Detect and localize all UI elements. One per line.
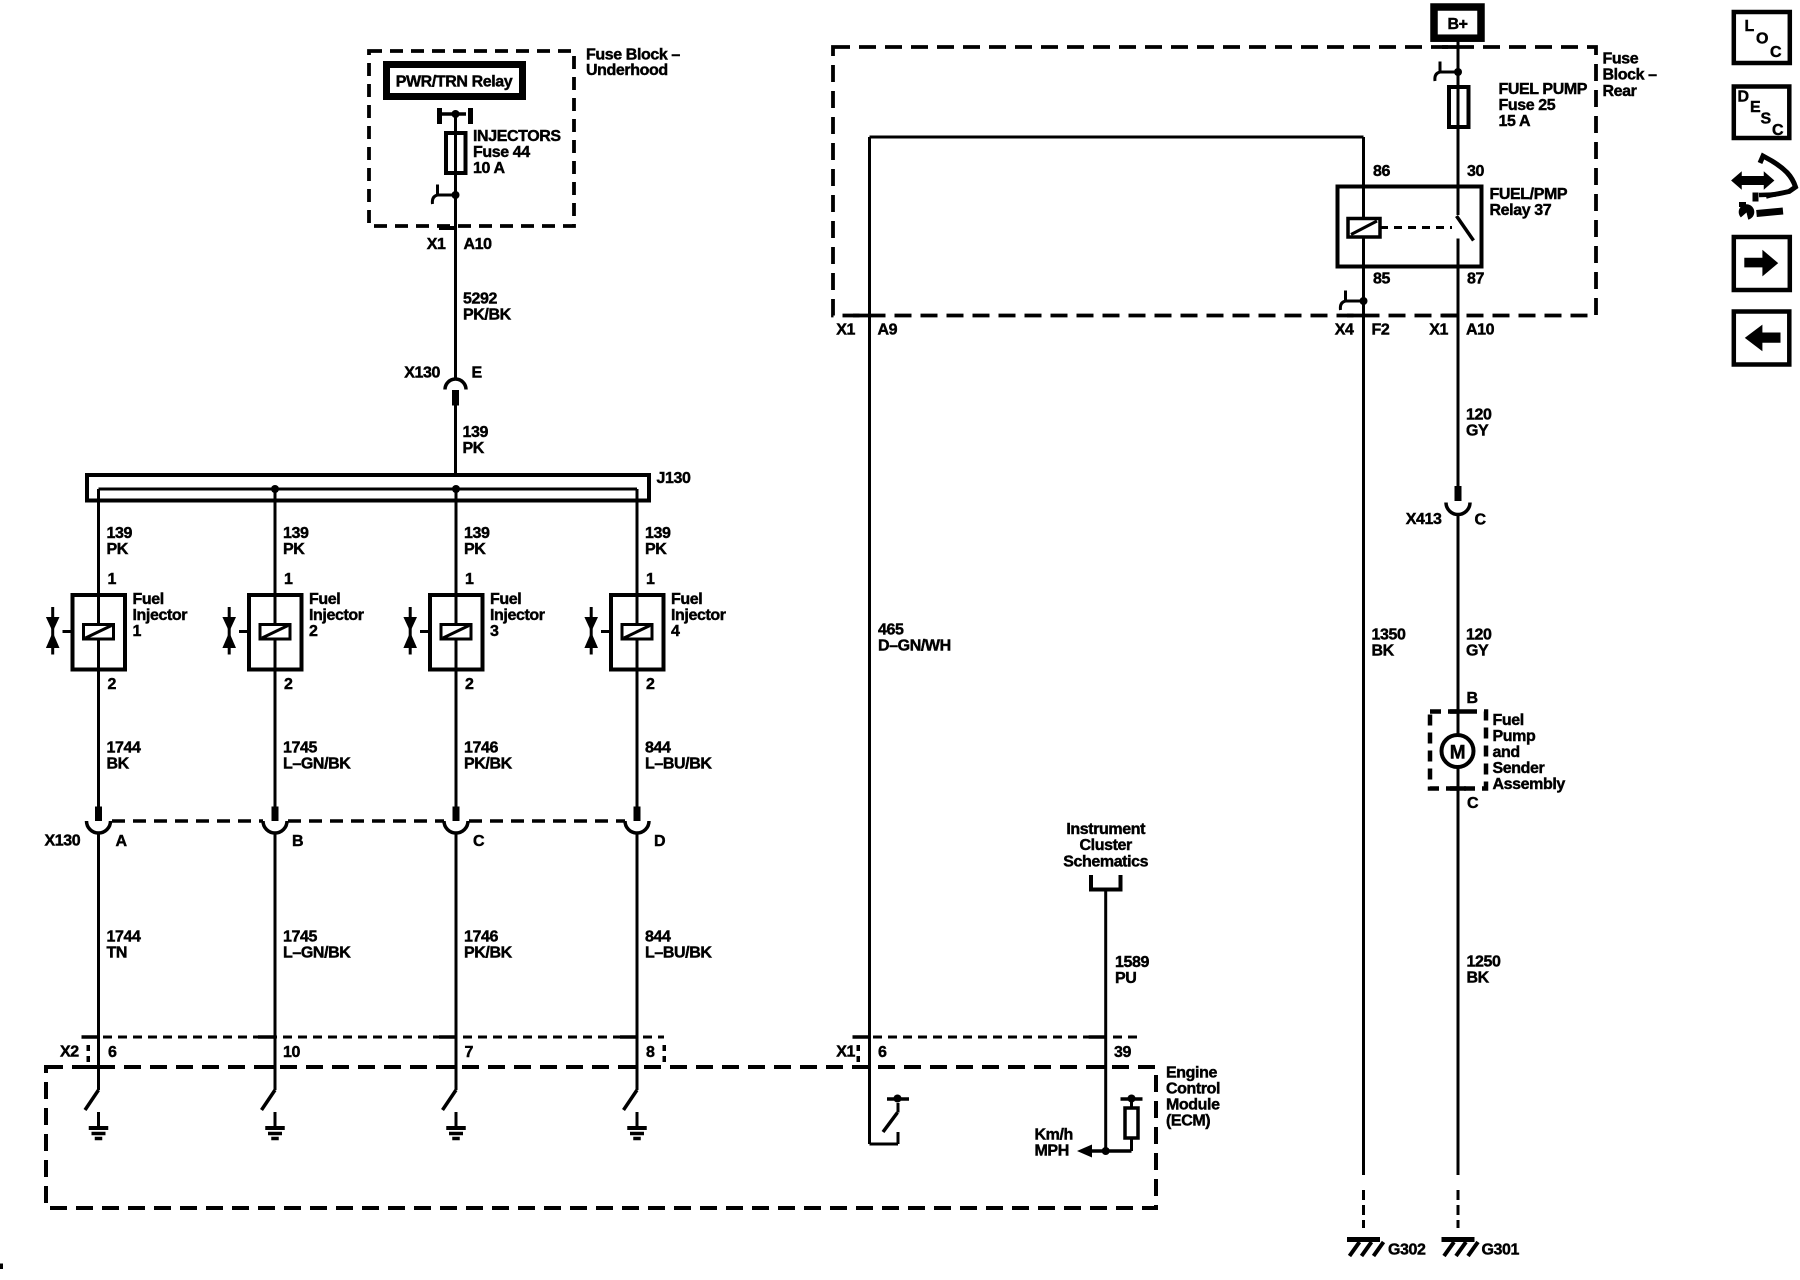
wire injector 3 to connector X130	[455, 641, 458, 807]
svg-text:Injector: Injector	[133, 607, 188, 624]
svg-text:PWR/TRN Relay: PWR/TRN Relay	[396, 74, 513, 91]
label FUEL/PMP Relay 37	[1490, 186, 1568, 219]
svg-text:2: 2	[309, 623, 318, 640]
svg-text:1: 1	[284, 571, 293, 588]
wire 1589 PU	[1106, 890, 1150, 1152]
fuse F25 (FUEL PUMP Fuse 25 15A)	[1449, 81, 1588, 130]
dashed wire end at G302	[1362, 1190, 1365, 1228]
wire label 1746 PK/BK	[464, 929, 513, 962]
label Instrument Cluster Schematics	[1063, 821, 1148, 871]
ECM driver switch for injector 4	[624, 1090, 638, 1110]
svg-text:1: 1	[108, 571, 117, 588]
svg-text:PK/BK: PK/BK	[463, 307, 512, 324]
svg-text:A10: A10	[1466, 322, 1495, 339]
svg-text:7: 7	[465, 1044, 474, 1061]
svg-text:FUEL PUMP: FUEL PUMP	[1499, 81, 1588, 98]
connector X130 pin D	[625, 807, 665, 851]
pin C label	[1467, 795, 1479, 812]
svg-text:Instrument: Instrument	[1066, 821, 1146, 838]
svg-text:844: 844	[645, 929, 671, 946]
svg-text:J130: J130	[657, 470, 691, 487]
ECM driver switch for injector 2	[262, 1090, 276, 1110]
svg-text:5292: 5292	[463, 291, 497, 308]
ground G301	[1442, 1240, 1520, 1259]
wire pin 86 to X1 A9 (horizontal)	[870, 137, 1364, 316]
wire injector 1 to connector X130	[97, 641, 100, 807]
fuel injector 4	[584, 591, 725, 670]
ground symbol inside ECM 4	[627, 1112, 647, 1139]
svg-text:and: and	[1493, 744, 1520, 761]
fuel injector 2	[222, 591, 363, 670]
svg-text:86: 86	[1373, 163, 1390, 180]
relay internal dashed link	[1380, 226, 1452, 229]
labels X1 / A10 (rear)	[1429, 322, 1494, 339]
wire: relay contact through fuse 44 to X130 E	[454, 114, 457, 378]
wire 139 PK drop to injector 4	[637, 489, 671, 623]
ECM low-side switch at pin 6 (X1)	[870, 1095, 910, 1145]
svg-text:Rear: Rear	[1603, 83, 1637, 100]
wire 139 PK feed to J130	[454, 406, 457, 478]
svg-text:X1: X1	[836, 1044, 855, 1061]
svg-text:1350: 1350	[1372, 627, 1406, 644]
svg-text:INJECTORS: INJECTORS	[473, 128, 561, 145]
svg-text:C: C	[1467, 795, 1479, 812]
svg-text:X4: X4	[1335, 322, 1354, 339]
svg-text:B+: B+	[1447, 16, 1467, 33]
pin 1 label injector 2	[284, 571, 293, 588]
splice below relay pin 85	[1340, 291, 1367, 311]
fuel pump and sender assembly dashed box	[1430, 712, 1486, 789]
X130 connector dashed row	[112, 819, 625, 823]
svg-text:1744: 1744	[107, 740, 141, 757]
ground symbol inside ECM 3	[446, 1112, 466, 1139]
resistor in ECM	[1121, 1095, 1143, 1139]
relay pin 86 label	[1373, 163, 1390, 180]
wire 139 PK drop to injector 2	[275, 489, 309, 623]
svg-text:GY: GY	[1466, 423, 1489, 440]
svg-text:10 A: 10 A	[473, 160, 505, 177]
wire label 1744 TN	[107, 929, 141, 962]
ECM connector row X2	[60, 1037, 664, 1062]
svg-text:Sender: Sender	[1493, 760, 1545, 777]
svg-text:MPH: MPH	[1035, 1143, 1069, 1160]
svg-text:139: 139	[283, 525, 309, 542]
relay FUEL/PMP Relay 37 box	[1338, 187, 1482, 267]
wire label 120 GY (lower)	[1466, 627, 1492, 660]
fuel injector 3	[403, 591, 544, 670]
svg-text:Control: Control	[1166, 1081, 1220, 1098]
svg-text:Injector: Injector	[309, 607, 364, 624]
wire B+ to fuse 25	[1457, 37, 1460, 85]
connector X130 pin B	[263, 807, 303, 851]
svg-text:X413: X413	[1406, 511, 1442, 528]
labels X1 / A10 at underhood box exit	[427, 236, 492, 253]
svg-text:Relay 37: Relay 37	[1490, 202, 1552, 219]
wire relay 87 down to X413	[1457, 267, 1460, 487]
svg-text:L–BU/BK: L–BU/BK	[645, 945, 712, 962]
label: Fuse Block - Rear	[1603, 51, 1658, 101]
svg-text:PK/BK: PK/BK	[464, 945, 513, 962]
icon forward arrow box	[1734, 237, 1790, 290]
svg-text:1250: 1250	[1467, 954, 1501, 971]
svg-text:A10: A10	[464, 236, 493, 253]
svg-text:Fuse: Fuse	[1603, 51, 1639, 68]
svg-text:Module: Module	[1166, 1097, 1220, 1114]
svg-text:Underhood: Underhood	[586, 62, 668, 79]
svg-text:C: C	[1770, 44, 1782, 61]
tick marks at ECM rows for injector 3 wire	[439, 1037, 456, 1067]
fuel injector 1	[46, 591, 187, 670]
ECM driver switch for injector 1	[85, 1090, 99, 1110]
wire fuse 25 to relay pin 30	[1457, 127, 1460, 215]
svg-text:1746: 1746	[464, 929, 498, 946]
svg-text:X1: X1	[1429, 322, 1448, 339]
tick marks at ECM rows for 465 wire	[853, 1037, 870, 1067]
labels X4 / F2	[1335, 322, 1390, 339]
svg-text:Schematics: Schematics	[1063, 854, 1148, 871]
svg-text:120: 120	[1466, 407, 1492, 424]
labels X1 / A9	[836, 322, 897, 339]
ECM driver switch for injector 3	[443, 1090, 457, 1110]
ECM pin 8 label	[646, 1044, 666, 1062]
svg-text:2: 2	[108, 676, 117, 693]
svg-text:BK: BK	[1372, 643, 1395, 660]
svg-text:139: 139	[107, 525, 133, 542]
svg-text:2: 2	[284, 676, 293, 693]
svg-text:A9: A9	[878, 322, 898, 339]
pin B label	[1467, 690, 1478, 707]
svg-text:BK: BK	[107, 756, 130, 773]
svg-text:(ECM): (ECM)	[1166, 1113, 1210, 1130]
Km/h MPH arrow	[1035, 1127, 1106, 1160]
pin 1 label injector 1	[108, 571, 117, 588]
svg-text:1589: 1589	[1115, 954, 1149, 971]
X130 harness connector label	[45, 833, 81, 850]
svg-text:D: D	[654, 833, 665, 850]
svg-text:3: 3	[490, 623, 499, 640]
svg-text:C: C	[473, 833, 485, 850]
svg-text:PK: PK	[463, 440, 485, 457]
wire label 1746 PK/BK	[464, 740, 513, 773]
svg-text:GY: GY	[1466, 643, 1489, 660]
wire connector B to ECM pin	[274, 833, 277, 1090]
svg-text:X130: X130	[45, 833, 81, 850]
svg-text:PK/BK: PK/BK	[464, 756, 513, 773]
junction block J130	[87, 470, 691, 501]
svg-text:Fuel: Fuel	[309, 591, 340, 608]
svg-text:PK: PK	[645, 541, 667, 558]
svg-text:844: 844	[645, 740, 671, 757]
svg-text:PK: PK	[107, 541, 129, 558]
svg-text:PK: PK	[464, 541, 486, 558]
icon wiring repair tool	[1733, 156, 1796, 223]
connector X413 pin C	[1406, 486, 1487, 529]
svg-text:X1: X1	[427, 236, 446, 253]
svg-text:Fuel: Fuel	[1493, 712, 1524, 729]
svg-text:1: 1	[646, 571, 655, 588]
splice at B+ feed	[1435, 62, 1462, 82]
wire label 1744 BK	[107, 740, 141, 773]
label Fuel Pump and Sender Assembly	[1493, 712, 1566, 793]
svg-text:1745: 1745	[283, 740, 317, 757]
svg-text:Km/h: Km/h	[1035, 1127, 1073, 1144]
icon LOC box	[1734, 12, 1790, 63]
wire 465 D-GN/WH from X1 A9 to ECM pin 6	[870, 316, 951, 1145]
wire label 1745 L–GN/BK	[283, 929, 351, 962]
svg-text:S: S	[1761, 111, 1772, 128]
svg-text:1744: 1744	[107, 929, 141, 946]
svg-text:Fuse 25: Fuse 25	[1499, 97, 1556, 114]
svg-text:1: 1	[465, 571, 474, 588]
svg-text:Fuel: Fuel	[133, 591, 164, 608]
svg-text:D: D	[1738, 89, 1749, 106]
label Engine Control Module (ECM)	[1166, 1065, 1220, 1130]
svg-text:2: 2	[465, 676, 474, 693]
svg-text:X1: X1	[836, 322, 855, 339]
relay switch contact	[1457, 216, 1474, 267]
pin 2 label injector 3	[465, 676, 474, 693]
PWR/TRN Relay box	[387, 65, 523, 97]
pin 2 label injector 2	[284, 676, 293, 693]
svg-text:1746: 1746	[464, 740, 498, 757]
svg-text:BK: BK	[1467, 970, 1490, 987]
svg-text:E: E	[472, 365, 483, 382]
svg-text:E: E	[1750, 99, 1761, 116]
svg-text:O: O	[1756, 31, 1768, 48]
ECM speed signal node	[1102, 1138, 1132, 1155]
tick marks at ECM rows for injector 2 wire	[258, 1037, 275, 1067]
wire fuel pump to G301	[1457, 767, 1460, 1175]
svg-text:139: 139	[645, 525, 671, 542]
wire connector C to ECM pin	[455, 833, 458, 1090]
splice in underhood fuse block	[432, 185, 459, 205]
svg-text:Fuse Block –: Fuse Block –	[586, 47, 680, 64]
svg-text:Block –: Block –	[1603, 67, 1658, 84]
svg-text:15 A: 15 A	[1499, 113, 1531, 130]
svg-text:Cluster: Cluster	[1080, 837, 1132, 854]
svg-text:X2: X2	[60, 1044, 79, 1061]
svg-text:85: 85	[1373, 271, 1390, 288]
svg-text:Assembly: Assembly	[1493, 776, 1566, 793]
wire 139 PK drop to injector 1	[99, 489, 133, 623]
svg-text:L–BU/BK: L–BU/BK	[645, 756, 712, 773]
svg-text:87: 87	[1467, 271, 1484, 288]
off-page connector bracket	[1089, 875, 1123, 890]
svg-text:6: 6	[878, 1044, 887, 1061]
svg-text:139: 139	[464, 525, 490, 542]
svg-text:TN: TN	[107, 945, 128, 962]
ticks at rear box bottom edge	[853, 314, 1458, 318]
wire X413 to fuel pump	[1457, 515, 1460, 736]
wire 139 PK drop to injector 3	[456, 489, 490, 623]
tick at rear box top edge	[1442, 45, 1458, 49]
svg-text:Fuel: Fuel	[671, 591, 702, 608]
icon back arrow box	[1734, 312, 1790, 365]
fuel pump motor M	[1442, 735, 1474, 767]
svg-text:Injector: Injector	[490, 607, 545, 624]
svg-text:30: 30	[1467, 163, 1484, 180]
ECM pin 7 label	[465, 1044, 474, 1061]
svg-text:B: B	[1467, 690, 1478, 707]
wire relay 85 down to G302	[1362, 316, 1365, 1176]
svg-text:L–GN/BK: L–GN/BK	[283, 945, 351, 962]
svg-text:465: 465	[878, 622, 904, 639]
ECM pin 6 label	[108, 1044, 117, 1061]
battery feed B+	[1434, 7, 1481, 38]
fuse block - rear (dashed box)	[833, 47, 1596, 316]
svg-text:1: 1	[133, 623, 142, 640]
svg-text:D–GN/WH: D–GN/WH	[878, 638, 951, 655]
wire injector 2 to connector X130	[274, 641, 277, 807]
wire label 1745 L–GN/BK	[283, 740, 351, 773]
fuse block - underhood (dashed box)	[369, 51, 574, 226]
wire connector D to ECM pin	[636, 833, 639, 1090]
relay pin 85 label	[1373, 271, 1390, 288]
svg-text:2: 2	[646, 676, 655, 693]
svg-text:8: 8	[646, 1044, 655, 1061]
svg-text:Engine: Engine	[1166, 1065, 1217, 1082]
svg-text:M: M	[1450, 743, 1465, 764]
wire label 120 GY (upper)	[1466, 407, 1492, 440]
ground symbol inside ECM 2	[265, 1112, 285, 1139]
connector X130 pin A	[87, 807, 128, 851]
svg-text:Injector: Injector	[671, 607, 726, 624]
ECM pin 39 label	[1114, 1044, 1131, 1061]
relay pin 30 label	[1467, 163, 1484, 180]
svg-text:C: C	[1772, 122, 1784, 139]
wire label 844 L–BU/BK	[645, 929, 712, 962]
svg-text:139: 139	[463, 424, 489, 441]
wire label 5292 PK/BK	[463, 291, 512, 324]
svg-text:Pump: Pump	[1493, 728, 1536, 745]
svg-text:G302: G302	[1388, 1242, 1426, 1259]
relay coil	[1348, 137, 1380, 316]
svg-text:C: C	[1475, 512, 1487, 529]
label: Fuse Block - Underhood	[586, 47, 680, 80]
pin 2 label injector 1	[108, 676, 117, 693]
svg-text:G301: G301	[1482, 1242, 1520, 1259]
wire label 844 L–BU/BK	[645, 740, 712, 773]
svg-text:F2: F2	[1372, 322, 1390, 339]
svg-text:120: 120	[1466, 627, 1492, 644]
ground symbol inside ECM 1	[89, 1112, 109, 1139]
svg-text:PU: PU	[1115, 970, 1136, 987]
svg-text:4: 4	[671, 623, 680, 640]
svg-text:Fuse 44: Fuse 44	[473, 144, 530, 161]
wire injector 4 to connector X130	[636, 641, 639, 807]
ECM pin 6 (X1) label	[878, 1044, 887, 1061]
dashed wire end at G301	[1457, 1190, 1460, 1228]
svg-text:L: L	[1745, 18, 1755, 35]
page corner mark	[0, 1264, 3, 1270]
ECM dashed box	[46, 1067, 1156, 1208]
connector X130 pin C	[444, 807, 485, 851]
ECM pin 10 label	[283, 1044, 300, 1061]
svg-text:L–GN/BK: L–GN/BK	[283, 756, 351, 773]
pin 1 label injector 3	[465, 571, 474, 588]
svg-text:Fuel: Fuel	[490, 591, 521, 608]
svg-text:10: 10	[283, 1044, 300, 1061]
wire label 1350 BK	[1372, 627, 1406, 660]
svg-text:6: 6	[108, 1044, 117, 1061]
wire label 139 PK (feed)	[463, 424, 489, 457]
tick at underhood box exit	[439, 226, 456, 230]
connector X130 pin E	[404, 365, 482, 406]
svg-text:X130: X130	[404, 365, 440, 382]
ground G302	[1347, 1240, 1426, 1259]
tick marks at ECM rows for injector 4 wire	[620, 1037, 637, 1067]
wire label 1250 BK	[1467, 954, 1501, 987]
tick marks at ECM rows for injector 1 wire	[82, 1037, 99, 1067]
wire connector A to ECM pin	[97, 833, 100, 1090]
svg-text:PK: PK	[283, 541, 305, 558]
svg-text:A: A	[116, 833, 128, 850]
tick marks at ECM rows for 1589 wire	[1089, 1037, 1106, 1067]
svg-text:B: B	[292, 833, 303, 850]
icon DESC box	[1734, 87, 1790, 140]
svg-text:1745: 1745	[283, 929, 317, 946]
pin 2 label injector 4	[646, 676, 655, 693]
pin 1 label injector 4	[646, 571, 655, 588]
svg-text:39: 39	[1114, 1044, 1131, 1061]
PWR/TRN relay contact symbol	[440, 108, 471, 124]
ECM connector row X1	[836, 1037, 1141, 1062]
relay pin 87 label	[1467, 271, 1484, 288]
fuse F44 (INJECTORS Fuse 44 10A)	[446, 128, 561, 177]
svg-text:FUEL/PMP: FUEL/PMP	[1490, 186, 1568, 203]
